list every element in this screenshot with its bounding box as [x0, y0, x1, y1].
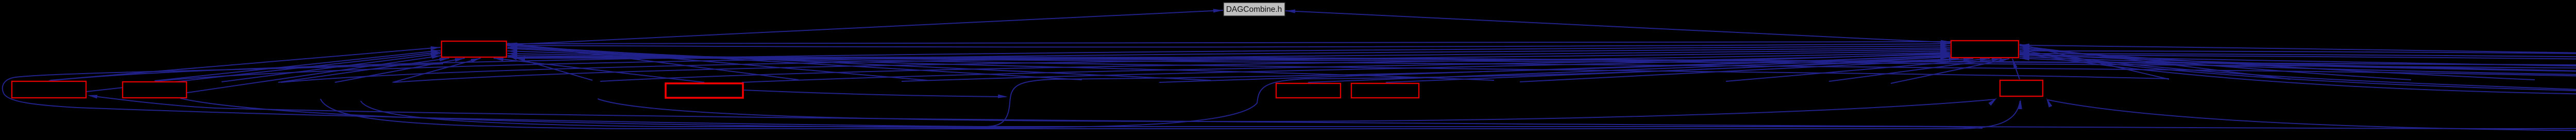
edge n5430 to hub2 [2020, 53, 2576, 96]
edge n2100 to hub1 [507, 46, 1082, 80]
edge n7307 to hub1 [507, 57, 2576, 72]
svg-text:DAGCombine.h: DAGCombine.h [1226, 5, 1282, 14]
edge n7647 to hub2 [2020, 54, 2576, 81]
edge n3550 to hub2 bottom [1829, 59, 2002, 81]
edge A to hub2 [49, 46, 1950, 81]
edge C to n1964 (short sag) [744, 90, 1006, 97]
node C (red, bold) [666, 83, 743, 98]
edge n2250 to hub2 [1159, 56, 1950, 82]
edge n1800 to hub1 [507, 44, 927, 80]
edge n4210 to hub2 [2020, 44, 2169, 79]
edge n2350 to hub1 [507, 47, 1211, 80]
edge n1550 to hub1 [507, 43, 799, 80]
edge n3670 to hub2 bottom [1891, 59, 2009, 83]
edge n5750 to F (bottom arc right) [2048, 99, 2576, 131]
edge n430 to hub1 [222, 54, 440, 82]
edge n650 to hub1 bottom [335, 58, 465, 82]
edge n5780 to A (bottom arc) [90, 96, 2576, 129]
edge n5190b to hub2 [2020, 50, 2576, 93]
edge n4445 to hub2 [2020, 46, 2290, 79]
edge n760 to hub2 [394, 51, 1950, 82]
edge n3350 to hub2 bottom [1726, 59, 1990, 81]
edge n1150 to hub1 [507, 56, 592, 80]
edge C to hub2 [742, 54, 1950, 82]
edge n4680 to hub2 [2020, 47, 2411, 80]
edge n5700 to hub2 [2020, 54, 2576, 80]
edge n5310 to hub2 [2020, 52, 2576, 95]
edge F to hub2 bottom [2012, 59, 2020, 79]
edge D to hub2 [1308, 57, 1950, 82]
edge A to hub1 [50, 47, 440, 80]
node E (red, truncated) [1351, 83, 1419, 98]
node B (red, truncated) [123, 82, 187, 98]
edge hub1 to root [506, 10, 1223, 45]
edge n4210 to hub1 [507, 51, 2169, 79]
edge n7302 to hub2 [2020, 51, 2576, 74]
node hub2 (red, truncated) [1951, 41, 2019, 58]
edge n1150 to hub2 [600, 52, 1950, 81]
edge n620 to F bottom (long low arc) [320, 99, 2020, 130]
edge B to hub1 [155, 50, 440, 81]
edge n5190 to hub1 [507, 54, 2576, 79]
edge n4920 to hub2 [2020, 49, 2535, 80]
node hub1 (red, truncated) [442, 41, 506, 57]
node F (red, truncated) [2000, 80, 2043, 96]
edge n7190 to hub1 bottom [515, 58, 2576, 71]
edge hub1 to hub2 upper [506, 42, 1951, 44]
edge n700 companion arc to F riser [361, 101, 1982, 128]
edge B to hub2 (bottom arc riser 2444) [180, 57, 1951, 128]
edge n7647b to hub2 [2020, 45, 2576, 81]
edge n540 to hub1 bottom [278, 58, 449, 82]
edge n150b to hub1 [77, 52, 442, 93]
edge n7507 to hub2 [2020, 55, 2576, 83]
edge n7211 to hub2 [2020, 57, 2576, 84]
edge n1160 to F (mid arc) [598, 99, 1995, 121]
edge n6000 to hub2 [2020, 55, 2576, 80]
edge n2900 to hub1 [507, 48, 1494, 80]
edge n2950 to hub2 bottom [1520, 59, 1973, 82]
edge hub1 to hub2 [506, 44, 1950, 47]
edge n6958 to hub2 [2020, 58, 2576, 85]
node D (red, truncated) [1276, 83, 1341, 98]
edge n6350 to hub1 [507, 56, 2576, 80]
edge n350b to hub1 [180, 56, 442, 94]
edge A loop to hub2 (bottom arc riser 1964) [3, 55, 1951, 127]
edge n1750 to hub2 [902, 53, 1950, 81]
edge n760 to hub1 bottom [393, 58, 481, 82]
edge E to hub2 bottom [1386, 59, 1959, 82]
node root DAGCombine.h [1224, 3, 1285, 16]
edge hub2 to root [1285, 11, 1952, 43]
edge n540 to hub2 [281, 49, 1950, 82]
node A (red, truncated) [12, 81, 86, 98]
edge B to hub2 [156, 48, 1950, 81]
edge C to hub1 bottom [494, 58, 704, 82]
